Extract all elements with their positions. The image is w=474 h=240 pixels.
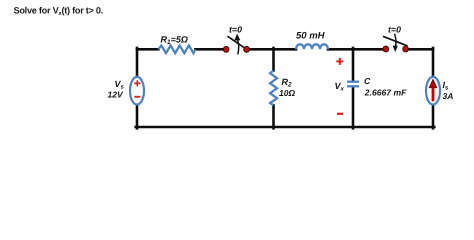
svg-text:3A: 3A <box>443 91 454 101</box>
svg-text:C: C <box>364 76 371 86</box>
svg-text:t=0: t=0 <box>388 25 401 35</box>
svg-text:Solve for Vx(t) for t> 0.: Solve for Vx(t) for t> 0. <box>14 5 104 17</box>
svg-text:2.6667 mF: 2.6667 mF <box>364 88 407 98</box>
svg-text:10Ω: 10Ω <box>279 88 295 98</box>
svg-text:R1=5Ω: R1=5Ω <box>161 35 188 47</box>
svg-text:50 mH: 50 mH <box>296 31 326 42</box>
svg-text:t=0: t=0 <box>229 25 242 35</box>
svg-text:12V: 12V <box>108 90 124 100</box>
